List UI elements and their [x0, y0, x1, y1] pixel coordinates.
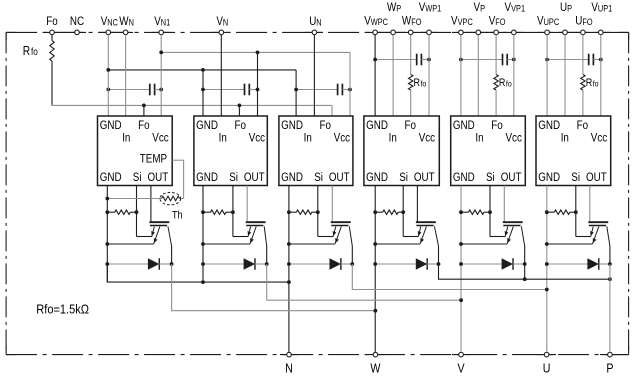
wire sense to Q2 sense emitter	[233, 236, 248, 238]
wire Si junction down	[317, 212, 319, 236]
wire rail to Rs3	[289, 211, 297, 213]
diode D1 freewheel	[107, 258, 171, 270]
pin UN	[312, 30, 317, 35]
svg-text:Fo: Fo	[235, 119, 246, 132]
junction P rail / Q5 collector	[523, 277, 527, 281]
junction rail / Rs4	[373, 210, 377, 214]
wire capacitor C4 to VWP1	[421, 59, 429, 61]
transistor Q4 IGBT	[416, 186, 439, 247]
junction rail / Q6 emitter	[545, 242, 549, 246]
svg-text:OUT: OUT	[148, 171, 169, 184]
svg-text:In: In	[389, 132, 397, 145]
svg-text:UFO: UFO	[575, 15, 592, 28]
junction VN1 / row A	[159, 51, 163, 55]
wire U5 emitter rail to phase pin	[460, 186, 462, 353]
module outline left border	[5, 32, 7, 354]
capacitor C6	[589, 54, 594, 66]
wire capacitor C3 to Vcc	[342, 89, 350, 91]
junction VNC / row B	[106, 68, 110, 72]
junction collector / D2 cathode	[265, 262, 269, 266]
junction C3 gnd side	[294, 88, 298, 92]
wire capacitor C5 to VVP1	[507, 59, 514, 61]
svg-text:U: U	[543, 360, 551, 375]
pin UFO	[581, 30, 586, 35]
wire WFO to Rfo	[410, 35, 412, 75]
diode D5 freewheel	[461, 258, 525, 270]
pin Fo	[50, 30, 55, 35]
wire bottom border solid segment	[452, 354, 470, 356]
op-amp U2 driver IC block	[194, 116, 267, 186]
wire U4 Si pin down	[402, 186, 404, 213]
junction Si / Rs1	[135, 210, 139, 214]
junction collector / D4 cathode	[437, 262, 441, 266]
svg-text:Vcc: Vcc	[152, 132, 169, 145]
svg-text:WN: WN	[119, 15, 134, 28]
svg-text:In: In	[122, 132, 130, 145]
wire Rs6 to Si	[570, 211, 576, 213]
svg-text:R: R	[414, 77, 421, 89]
svg-text:Fo: Fo	[320, 119, 331, 132]
wire border corner segment	[6, 31, 16, 33]
wire border corner segment	[619, 31, 629, 33]
wire top border solid segment	[152, 31, 170, 33]
svg-text:OUT: OUT	[414, 171, 435, 184]
pin VUP1	[599, 30, 604, 35]
svg-text:OUT: OUT	[329, 171, 350, 184]
junction C4 common side	[373, 58, 377, 62]
junction rail / D5 anode	[459, 262, 463, 266]
pin W	[373, 352, 378, 357]
pin VVP1	[512, 30, 517, 35]
wire Q3 collector down	[351, 246, 353, 264]
wire to capacitor C5	[461, 59, 503, 61]
wire bottom border solid segment	[280, 354, 298, 356]
pin VN	[219, 30, 224, 35]
svg-text:NC: NC	[70, 15, 84, 28]
wire to capacitor C6	[547, 59, 589, 61]
svg-text:GND: GND	[196, 119, 218, 132]
junction Si / Rs5	[488, 210, 492, 214]
pin NC	[75, 30, 80, 35]
wire Q6 collector / P line to P pin	[609, 264, 611, 352]
svg-text:Vcc: Vcc	[591, 132, 608, 145]
wire Q4 emitter to rail	[375, 243, 420, 245]
wire border corner segment	[628, 32, 630, 40]
wire U2 GND rail	[202, 186, 204, 283]
pin UP	[563, 30, 568, 35]
capacitor C1	[150, 84, 155, 96]
wire sense to Q1 sense emitter	[137, 236, 152, 238]
svg-text:R: R	[23, 45, 30, 58]
svg-text:VP: VP	[474, 1, 486, 14]
svg-text:VUPC: VUPC	[537, 15, 559, 28]
pin VP	[476, 30, 481, 35]
wire rail to Rs4	[375, 211, 383, 213]
wire U1 Si pin down	[136, 186, 138, 213]
transistor Q6 IGBT	[588, 186, 610, 247]
pin V	[459, 352, 464, 357]
wire Q5 collector down	[524, 246, 526, 264]
junction U route / U line	[545, 288, 549, 292]
pin WFO	[408, 30, 413, 35]
wire top border solid segment	[99, 31, 133, 33]
junction collector / D5 cathode	[523, 262, 527, 266]
wire Rs2 to Si	[226, 211, 233, 213]
capacitor C3	[338, 84, 343, 96]
svg-text:GND: GND	[100, 119, 122, 132]
pin WN	[123, 30, 128, 35]
wire Fo bus to U1 Fo	[143, 105, 145, 116]
wire border corner segment	[619, 354, 629, 356]
resistor Rs6 current sense	[554, 210, 569, 214]
pin N	[287, 352, 292, 357]
svg-text:GND: GND	[196, 171, 218, 184]
resistor Rfo (fault output pull-up)	[50, 35, 54, 106]
wire bottom border solid segment	[366, 354, 385, 356]
junction P rail / P line	[608, 277, 612, 281]
svg-text:GND: GND	[100, 171, 122, 184]
svg-text:VN: VN	[216, 15, 228, 28]
capacitor C4	[417, 54, 422, 66]
svg-text:fo: fo	[593, 79, 599, 89]
svg-text:OUT: OUT	[586, 171, 607, 184]
svg-text:Vcc: Vcc	[419, 132, 436, 145]
pin WP	[391, 30, 396, 35]
svg-text:Si: Si	[486, 171, 495, 184]
svg-text:R: R	[499, 77, 506, 89]
svg-text:GND: GND	[281, 119, 303, 132]
svg-text:N: N	[285, 360, 293, 375]
svg-text:In: In	[561, 132, 569, 145]
wire rail to Rs2	[203, 211, 211, 213]
wire border corner segment	[6, 354, 16, 356]
svg-text:VVPC: VVPC	[451, 15, 473, 28]
junction rail / Q1 emitter	[105, 242, 109, 246]
wire row A to U2 Vcc	[257, 52, 259, 116]
junction C3 vcc side	[348, 88, 352, 92]
junction collector / D1 cathode	[170, 262, 174, 266]
junction rail / Rs6	[545, 210, 549, 214]
svg-text:VNC: VNC	[101, 15, 118, 28]
junction rail / thermistor	[105, 197, 109, 201]
svg-text:fo: fo	[421, 79, 427, 89]
resistor Rs2 current sense	[211, 210, 226, 214]
wire U2 Si pin down	[232, 186, 234, 213]
junction Si / Rs3	[316, 210, 320, 214]
wire border corner segment	[628, 347, 630, 355]
pin VWPC	[373, 30, 378, 35]
svg-text:Fo: Fo	[138, 119, 149, 132]
junction rail / Rs5	[459, 210, 463, 214]
wire VWP1 to U4 Vcc	[428, 35, 430, 116]
svg-text:In: In	[475, 132, 483, 145]
junction Si / Rs4	[401, 210, 405, 214]
wire sense to Q4 sense emitter	[403, 236, 418, 238]
wire Rs3 to Si	[312, 211, 318, 213]
junction rail / Rs1	[105, 210, 109, 214]
wire VWPC to U4 GND	[374, 35, 376, 116]
wire U1 GND rail	[106, 186, 108, 283]
wire bottom border solid segment	[537, 354, 556, 356]
junction Si / Rs6	[574, 210, 578, 214]
wire sense to Q6 sense emitter	[576, 236, 591, 238]
wire Q2 emitter to rail	[203, 243, 250, 245]
wire VUPC to U6 GND	[546, 35, 548, 116]
junction rail / D4 anode	[373, 262, 377, 266]
wire top border solid segment	[538, 31, 610, 33]
junction C5 common side	[459, 58, 463, 62]
module outline bottom border	[6, 354, 629, 356]
junction rail / D2 anode	[201, 262, 205, 266]
svg-text:GND: GND	[366, 119, 388, 132]
wire Q6 emitter to rail	[547, 243, 593, 245]
wire border corner segment	[5, 32, 7, 40]
wire capacitor C2 to Vcc	[249, 89, 257, 91]
wire Rs1 to Si	[130, 211, 136, 213]
wire Fo bus to U3 Fo	[331, 105, 333, 116]
svg-text:Fo: Fo	[491, 119, 502, 132]
wire Si junction down	[489, 212, 491, 236]
wire Rs5 to Si	[484, 211, 490, 213]
junction Si / Rs2	[231, 210, 235, 214]
svg-text:Vcc: Vcc	[506, 132, 523, 145]
svg-text:V: V	[458, 360, 465, 375]
wire VNC to U1 GND	[107, 35, 109, 116]
wire Fo bus (fault output)	[52, 104, 332, 106]
junction rail / D3 anode	[287, 262, 291, 266]
junction row A / U2 Vcc	[256, 51, 260, 55]
wire row B to U2 GND	[202, 70, 204, 116]
svg-text:Fo: Fo	[46, 15, 57, 28]
junction C2 vcc side	[256, 88, 260, 92]
transistor Q5 IGBT	[503, 186, 525, 247]
junction row B / U2 GND	[201, 68, 205, 72]
resistor Rfo (W phase fault output)	[409, 75, 413, 90]
op-amp U1 driver IC block	[98, 116, 173, 186]
resistor Rs1 current sense	[115, 210, 130, 214]
wire Rfo to U4 Fo	[410, 90, 412, 116]
wire to capacitor C4	[375, 59, 417, 61]
wire Q1 emitter to rail	[107, 243, 153, 245]
svg-text:UN: UN	[309, 15, 321, 28]
wire Rfo to U5 Fo	[495, 90, 497, 116]
pin VFO	[494, 30, 499, 35]
wire Si junction down	[136, 212, 138, 236]
svg-text:Si: Si	[133, 171, 142, 184]
svg-text:Si: Si	[229, 171, 238, 184]
transistor Q3 IGBT	[331, 186, 353, 247]
wire VP to U5 In	[477, 35, 479, 116]
wire WP to U4 In	[392, 35, 394, 116]
wire sense to Q3 sense emitter	[318, 236, 333, 238]
junction V route / V line	[459, 298, 463, 302]
wire Si junction down	[402, 212, 404, 236]
svg-text:In: In	[219, 132, 227, 145]
wire Q2 collector down	[266, 246, 268, 264]
wire VNC ground bus (row B)	[108, 69, 296, 71]
wire Q6 collector down	[609, 246, 611, 264]
wire U6 Si pin down	[575, 186, 577, 213]
wire Si junction down	[232, 212, 234, 236]
pin P	[608, 352, 613, 357]
svg-text:TEMP: TEMP	[140, 152, 167, 165]
wire WN to U1 In	[125, 35, 127, 116]
resistor Rfo (V phase fault output)	[494, 75, 498, 90]
junction C4 supply side	[427, 58, 431, 62]
junction rail / Q4 emitter	[373, 242, 377, 246]
wire U5 Si pin down	[489, 186, 491, 213]
wire to capacitor C3	[296, 89, 338, 91]
diode D2 freewheel	[203, 258, 267, 270]
wire P rail (high side collectors)	[439, 264, 610, 279]
junction rail / Rs3	[287, 210, 291, 214]
wire rail to Rs1	[107, 211, 115, 213]
module outline right border	[628, 32, 630, 354]
op-amp U5 driver IC block	[451, 116, 526, 186]
wire rail to Rs6	[547, 211, 555, 213]
svg-text:OUT: OUT	[501, 171, 522, 184]
wire U3 Si pin down	[317, 186, 319, 213]
capacitor C5	[503, 54, 508, 66]
wire Fo bus to U2 Fo	[238, 105, 240, 116]
wire VFO to Rfo	[495, 35, 497, 75]
pin VUPC	[545, 30, 550, 35]
svg-text:fo: fo	[31, 46, 38, 57]
op-amp U3 driver IC block	[279, 116, 353, 186]
wire top border solid segment	[212, 31, 230, 33]
wire Q4 collector down	[438, 246, 440, 264]
svg-text:W: W	[370, 360, 381, 375]
wire border corner segment	[5, 347, 7, 355]
svg-text:VFO: VFO	[489, 15, 506, 28]
junction rail / D1 anode	[105, 262, 109, 266]
op-amp U6 driver IC block	[536, 116, 611, 186]
wire Si junction down	[575, 212, 577, 236]
diode D6 freewheel	[547, 258, 610, 270]
wire UN to U3 In	[313, 35, 315, 116]
transistor Q1 IGBT	[149, 186, 171, 247]
op-amp U4 driver IC block	[364, 116, 439, 186]
svg-text:VVP1: VVP1	[505, 1, 526, 14]
resistor Rs3 current sense	[296, 210, 311, 214]
wire VN to U2 In	[220, 35, 222, 116]
wire top border solid segment	[44, 31, 86, 33]
pin VN1	[159, 30, 164, 35]
resistor Rs4 current sense	[383, 210, 398, 214]
wire VN1 to U1 Vcc	[160, 35, 162, 116]
svg-text:Si: Si	[399, 171, 408, 184]
wire Q3 emitter to rail	[289, 243, 335, 245]
module outline top border	[6, 31, 629, 33]
capacitor C2	[245, 84, 250, 96]
wire sense to Q5 sense emitter	[490, 236, 505, 238]
junction collector / D6 cathode	[608, 262, 612, 266]
junction rail / Q3 emitter	[287, 242, 291, 246]
svg-text:Vcc: Vcc	[249, 132, 266, 145]
svg-text:VN1: VN1	[154, 15, 170, 28]
svg-text:VUP1: VUP1	[591, 1, 612, 14]
svg-text:GND: GND	[366, 171, 388, 184]
svg-text:fo: fo	[506, 79, 512, 89]
wire bottom border solid segment	[600, 354, 619, 356]
wire Rfo to U6 Fo	[582, 90, 584, 116]
junction C2 gnd side	[201, 88, 205, 92]
wire Rs4 to Si	[398, 211, 403, 213]
junction C5 supply side	[512, 58, 516, 62]
transistor Q2 IGBT	[246, 186, 267, 247]
svg-text:WFO: WFO	[402, 15, 422, 28]
junction rail / D6 anode	[545, 262, 549, 266]
svg-text:Si: Si	[314, 171, 323, 184]
svg-text:In: In	[304, 132, 312, 145]
diode D3 freewheel	[289, 258, 352, 270]
svg-text:GND: GND	[538, 119, 560, 132]
wire VVPC to U5 GND	[460, 35, 462, 116]
svg-text:GND: GND	[538, 171, 560, 184]
resistor Rfo (U phase fault output)	[581, 75, 585, 90]
wire capacitor C1 to Vcc	[155, 89, 162, 91]
resistor Rs5 current sense	[469, 210, 484, 214]
wire Q3 collector to U output	[352, 264, 547, 290]
svg-text:VWPC: VWPC	[364, 15, 388, 28]
svg-text:GND: GND	[453, 171, 475, 184]
wire Q1 collector down	[171, 246, 173, 264]
wire Q5 collector to P rail	[524, 264, 526, 279]
pin U	[544, 352, 549, 357]
junction C1 vcc side	[159, 88, 163, 92]
pin VNC	[106, 30, 111, 35]
svg-text:Vcc: Vcc	[334, 132, 351, 145]
wire U6 emitter rail to phase pin	[546, 186, 548, 353]
wire VN1 supply bus (row A)	[161, 51, 350, 53]
junction collector / D3 cathode	[350, 262, 354, 266]
diode D4 freewheel	[375, 258, 438, 270]
junction N bus / U2 rail	[201, 280, 205, 284]
junction W route / W line	[374, 309, 378, 313]
svg-text:WP: WP	[387, 1, 402, 14]
wire to capacitor C2	[203, 89, 245, 91]
svg-text:Fo: Fo	[405, 119, 416, 132]
pin VVPC	[459, 30, 464, 35]
junction rail / Q2 emitter	[201, 242, 205, 246]
junction rail / Q5 emitter	[459, 242, 463, 246]
junction C1 gnd side	[106, 88, 110, 92]
wire UP to U6 In	[564, 35, 566, 116]
junction C6 common side	[545, 58, 549, 62]
wire rail to Rs5	[461, 211, 469, 213]
wire Q1 collector to W output	[172, 264, 376, 311]
junction N bus / N line	[287, 280, 291, 284]
svg-text:P: P	[606, 360, 613, 375]
svg-text:Rfo=1.5kΩ: Rfo=1.5kΩ	[36, 301, 89, 316]
wire Q5 emitter to rail	[461, 243, 507, 245]
svg-text:Si: Si	[571, 171, 580, 184]
svg-text:Fo: Fo	[577, 119, 588, 132]
wire top border solid segment	[452, 31, 523, 33]
wire U3 GND rail to N pin	[288, 186, 290, 353]
wire VUP1 to U6 Vcc	[600, 35, 602, 116]
wire U4 emitter rail to phase pin	[374, 186, 376, 353]
wire VVP1 to U5 Vcc	[513, 35, 515, 116]
wire top border solid segment	[366, 31, 438, 33]
svg-text:VWP1: VWP1	[419, 1, 442, 14]
junction C6 supply side	[599, 58, 603, 62]
pin VWP1	[427, 30, 432, 35]
wire UFO to Rfo	[582, 35, 584, 75]
wire top border solid segment	[305, 31, 323, 33]
wire to capacitor C1	[108, 89, 150, 91]
wire Q2 collector to V output	[267, 264, 461, 300]
